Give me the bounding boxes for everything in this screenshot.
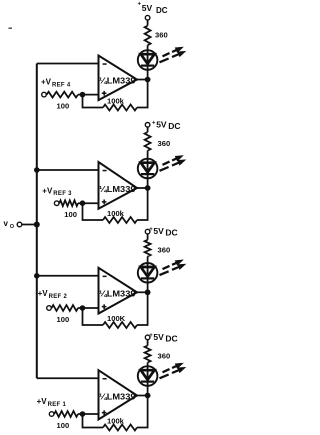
wire: U2 output to LED node	[137, 291, 148, 293]
resistor 100k feedback (stage 3)	[103, 217, 137, 223]
wire: bus to comparator U2 inverting input	[37, 275, 99, 277]
wire: U4 output to LED node	[137, 79, 148, 81]
node +5V DC terminal stage 2	[145, 229, 150, 234]
wire: bus to comparator U4 inverting input	[37, 63, 99, 65]
speck	[9, 28, 13, 29]
wire: Vo terminal to bus	[22, 224, 37, 226]
wire: feedback right leg stage 4	[137, 80, 148, 108]
junction: output node stage 3	[145, 185, 151, 191]
wire: bus to comparator U1 inverting input	[37, 377, 99, 379]
wire: feedback left leg stage 4	[83, 95, 104, 108]
svg-text:100: 100	[57, 421, 70, 430]
svg-text:5V: 5V	[156, 119, 167, 129]
pin label - (inverting) U3	[103, 170, 107, 172]
svg-text:5V: 5V	[153, 226, 164, 236]
resistor 360 (stage 4)	[145, 26, 151, 46]
LED D3	[138, 159, 158, 179]
junction: output node stage 4	[145, 77, 151, 83]
svg-text:100: 100	[57, 315, 70, 324]
junction: Vo on bus	[34, 222, 40, 228]
op-amp U1 comparator ¼LM339	[99, 370, 138, 419]
node +5V DC terminal stage 4	[145, 15, 150, 20]
pin label + (non-inverting) U4	[102, 93, 107, 95]
node +5V DC terminal stage 3	[145, 123, 150, 128]
junction: output node stage 2	[145, 289, 151, 295]
svg-text:REF 4: REF 4	[52, 82, 71, 88]
LED light arrows stage 4	[160, 47, 186, 62]
resistor 360 (stage 1)	[145, 346, 151, 363]
node +VREF2 terminal	[47, 306, 52, 311]
svg-text:100: 100	[57, 102, 70, 111]
wire: LED anode to resistor 360 stage 1	[147, 363, 149, 367]
svg-text:REF 2: REF 2	[49, 294, 68, 300]
svg-text:100k: 100k	[107, 209, 125, 218]
svg-text:¼LM339: ¼LM339	[99, 393, 136, 402]
svg-text:REF 1: REF 1	[48, 402, 67, 408]
op-amp U3 comparator ¼LM339	[99, 162, 138, 209]
wire: resistor 360 to +5V terminal stage 2	[147, 234, 149, 240]
junction: bus tap stage 2	[34, 273, 40, 279]
wire: resistor to + input U2	[78, 307, 99, 309]
pin label - (inverting) U4	[103, 63, 107, 65]
junction: bus tap stage 3	[34, 167, 40, 173]
svg-text:360: 360	[155, 31, 168, 40]
pin label + (non-inverting) U1	[102, 412, 107, 414]
LED D4	[138, 50, 158, 70]
junction: feedback tap stage 2	[80, 305, 86, 311]
wire: LED anode to resistor 360 stage 4	[147, 45, 149, 50]
resistor 100 (stage 3)	[59, 200, 78, 206]
svg-text:100K: 100K	[107, 314, 126, 323]
wire: feedback right leg stage 2	[137, 292, 148, 325]
pin label + (non-inverting) U2	[102, 306, 107, 308]
node +5V DC terminal stage 1	[145, 335, 150, 340]
node +VREF1 terminal	[49, 412, 54, 417]
resistor 100 (stage 1)	[54, 411, 78, 417]
svg-text:DC: DC	[156, 6, 168, 15]
wire: resistor to + input U3	[78, 202, 99, 204]
LED D2	[138, 263, 158, 283]
svg-text:+V: +V	[38, 289, 49, 298]
node +VREF4 terminal	[42, 92, 47, 97]
wire: U3 output to LED node	[137, 187, 148, 189]
pin label - (inverting) U2	[103, 276, 107, 278]
svg-text:¼LM339: ¼LM339	[99, 77, 136, 86]
wire: feedback left leg stage 2	[83, 308, 104, 325]
svg-text:DC: DC	[165, 334, 177, 344]
wire: bus to comparator U3 inverting input	[37, 169, 99, 171]
resistor 360 (stage 3)	[145, 132, 151, 151]
svg-text:100k: 100k	[107, 417, 125, 426]
svg-text:+V: +V	[42, 186, 53, 195]
wire: Vo bus vertical	[36, 64, 38, 379]
pin label - (inverting) U1	[103, 378, 107, 380]
LED D1	[138, 366, 158, 386]
wire: feedback right leg stage 1	[137, 396, 148, 428]
resistor 100k feedback (stage 1)	[103, 425, 137, 431]
svg-text:360: 360	[158, 246, 171, 255]
svg-text:100: 100	[64, 210, 77, 219]
wire: LED anode to resistor 360 stage 2	[147, 256, 149, 263]
wire: resistor to + input U1	[78, 413, 99, 415]
wire: resistor 360 to +5V terminal stage 4	[147, 20, 149, 26]
node +VREF3 terminal	[54, 201, 59, 206]
resistor 100K feedback (stage 2)	[103, 322, 137, 328]
wire: feedback right leg stage 3	[137, 188, 148, 220]
wire: feedback left leg stage 1	[83, 414, 104, 428]
svg-text:¼LM339: ¼LM339	[99, 289, 136, 298]
resistor 100k feedback (stage 4)	[103, 105, 137, 111]
wire: resistor 360 to +5V terminal stage 1	[147, 340, 149, 346]
wire: LED anode to resistor 360 stage 3	[147, 151, 149, 159]
svg-text:REF 3: REF 3	[53, 191, 72, 197]
junction: feedback tap stage 1	[80, 411, 86, 417]
svg-text:5V: 5V	[142, 3, 153, 13]
svg-text:+V: +V	[37, 397, 48, 406]
op-amp U2 comparator ¼LM339	[99, 268, 138, 314]
pin label + (non-inverting) U3	[102, 201, 107, 203]
wire: U1 output to LED node	[137, 395, 148, 397]
svg-text:360: 360	[158, 352, 171, 361]
junction: output node stage 1	[145, 393, 151, 399]
wire: resistor to + input U4	[78, 94, 99, 96]
junction: feedback tap stage 4	[80, 92, 86, 98]
svg-text:¼LM339: ¼LM339	[99, 185, 136, 194]
LED light arrows stage 3	[160, 156, 186, 171]
svg-text:100k: 100k	[107, 97, 125, 106]
resistor 100 (stage 2)	[52, 305, 78, 311]
resistor 360 (stage 2)	[145, 240, 151, 257]
junction: feedback tap stage 3	[80, 200, 86, 206]
LED light arrows stage 1	[160, 363, 186, 378]
LED light arrows stage 2	[160, 260, 186, 275]
svg-text:DC: DC	[165, 228, 177, 238]
svg-text:DC: DC	[168, 121, 180, 131]
resistor 100 (stage 4)	[47, 92, 78, 98]
wire: resistor 360 to +5V terminal stage 3	[147, 127, 149, 132]
svg-text:O: O	[10, 224, 15, 230]
op-amp U4 comparator ¼LM339	[99, 56, 138, 101]
svg-text:+V: +V	[41, 78, 52, 87]
wire: feedback left leg stage 3	[83, 203, 104, 220]
svg-text:v: v	[4, 219, 9, 228]
svg-text:360: 360	[158, 139, 171, 148]
svg-text:5V: 5V	[153, 332, 164, 342]
